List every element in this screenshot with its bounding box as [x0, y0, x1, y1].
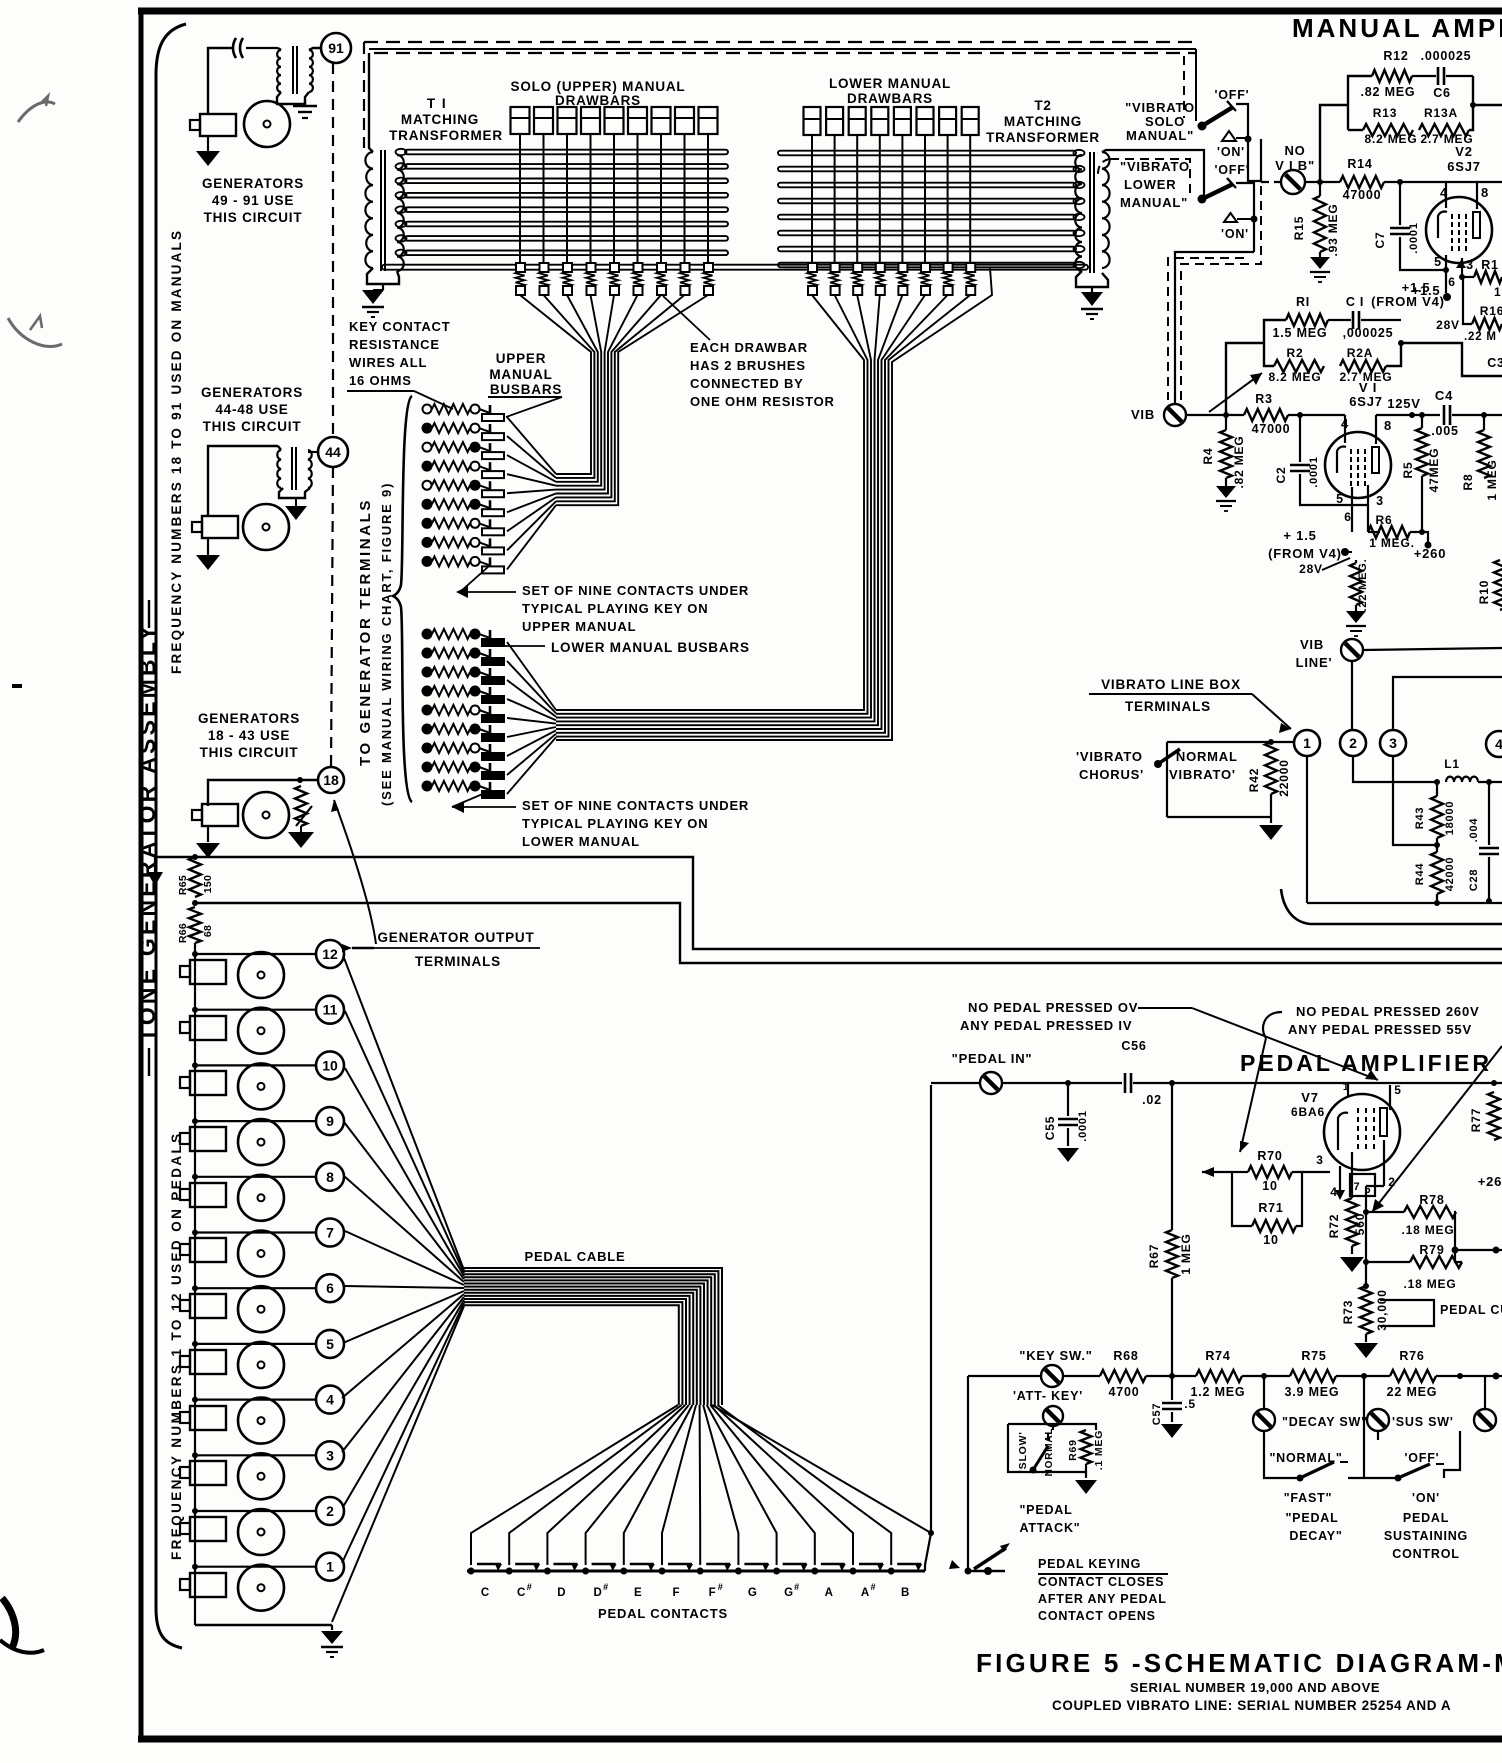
svg-text:B: B: [901, 1587, 909, 1599]
svg-text:FREQUENCY NUMBERS 1 TO 12 US: FREQUENCY NUMBERS 1 TO 12 USED ON PEDALS: [169, 1131, 184, 1560]
svg-text:3: 3: [1316, 1153, 1323, 1167]
wire pedal contact lead 9: [707, 1405, 777, 1565]
svg-text:1 M: 1 M: [1494, 285, 1502, 299]
svg-text:6: 6: [326, 1280, 334, 1296]
svg-text:5: 5: [1394, 1083, 1401, 1097]
drawbar lower 5 brushes: [898, 263, 907, 272]
drawbar upper 3 stem: [566, 134, 568, 267]
svg-text:.18 MEG: .18 MEG: [1404, 1277, 1457, 1291]
svg-text:V2: V2: [1455, 144, 1473, 159]
svg-text:R4: R4: [1201, 448, 1215, 465]
svg-text:"FAST": "FAST": [1284, 1491, 1333, 1505]
generator row 8 wire: [195, 1176, 317, 1178]
key contact resistor (upper busbar 1): [423, 405, 432, 414]
drawbar lower 3: [849, 107, 866, 135]
svg-text:L1: L1: [1444, 757, 1460, 771]
wire C4 node: [1376, 414, 1440, 416]
busbar stub (lower 3): [489, 668, 492, 682]
svg-text:(SEE MANUAL WIRING CHART, FIGU: (SEE MANUAL WIRING CHART, FIGURE 9): [379, 482, 394, 806]
resistor R12 parallel box: [1348, 76, 1372, 130]
wire R70 to pin3: [1302, 1171, 1330, 1173]
wire pedal cable lead 2: [343, 1300, 464, 1507]
svg-text:1.5 MEG: 1.5 MEG: [1273, 326, 1328, 340]
drawbar lower 8: [962, 107, 979, 135]
drawbar lower 7 stem: [947, 135, 949, 267]
busbar stub (upper 4): [489, 462, 492, 476]
resistor R13 R13A: [1348, 129, 1363, 131]
svg-text:PEDAL CONTACTS: PEDAL CONTACTS: [598, 1606, 728, 1621]
busbar stub (upper 6): [489, 500, 492, 514]
wire pedal cable lead 8: [344, 1176, 464, 1282]
capacitor C57: [1171, 1376, 1173, 1400]
svg-text:TYPICAL PLAYING KEY ON: TYPICAL PLAYING KEY ON: [522, 601, 708, 616]
transformer coil (gen 44-48): [277, 450, 281, 488]
svg-text:1.2 MEG: 1.2 MEG: [1191, 1385, 1246, 1399]
drawbar upper 8 stem: [684, 134, 686, 267]
resistor R7 .22MEG: [1355, 560, 1357, 563]
wire lower drawbar fan to bundle: [556, 295, 864, 710]
svg-text:G: G: [784, 1587, 793, 1599]
svg-text:"KEY SW.": "KEY SW.": [1019, 1348, 1092, 1363]
svg-text:RI: RI: [1296, 295, 1310, 309]
svg-text:LOWER MANUAL BUSBARS: LOWER MANUAL BUSBARS: [551, 640, 750, 655]
svg-text:AFTER ANY PEDAL: AFTER ANY PEDAL: [1038, 1592, 1167, 1606]
drawbar upper 8: [675, 107, 694, 134]
svg-text:PEDAL AMPLIFIER: PEDAL AMPLIFIER: [1240, 1050, 1492, 1076]
svg-text:8.2 MEG: 8.2 MEG: [1365, 132, 1418, 146]
svg-text:,000025: ,000025: [1343, 326, 1394, 340]
svg-text:A: A: [825, 1587, 833, 1599]
resistor R42: [1265, 742, 1277, 794]
svg-text:EACH DRAWBAR: EACH DRAWBAR: [690, 340, 808, 355]
wire vibrato bus down: [1253, 181, 1255, 252]
svg-text:D: D: [557, 1587, 565, 1599]
svg-text:'SUS SW': 'SUS SW': [1392, 1415, 1454, 1429]
drawbar upper 4: [581, 107, 600, 134]
leader pedal amplifier slash: [1372, 1046, 1502, 1212]
arrow ground (gen 18-43 resistor): [300, 826, 302, 832]
terminal circle 2: [316, 1497, 344, 1525]
leader GENERATOR OUTPUT TERMINALS: [352, 947, 374, 949]
capacitor C55: [1067, 1083, 1069, 1116]
svg-text:#: #: [527, 1582, 532, 1592]
svg-text:C7: C7: [1373, 232, 1387, 249]
svg-text:1 MEG: 1 MEG: [1179, 1233, 1193, 1274]
wire V1 cathode pins: [1351, 487, 1353, 532]
ground R7: [1355, 605, 1357, 611]
svg-text:CONTROL: CONTROL: [1392, 1547, 1459, 1561]
ground (generator bus): [331, 1625, 333, 1630]
wire generator output line A: [195, 857, 1502, 949]
drawbar upper 9 brushes: [704, 263, 713, 272]
svg-text:47MEG: 47MEG: [1427, 448, 1441, 493]
pedal contact F#: [697, 1568, 704, 1575]
key contact resistor (lower busbar 4): [423, 687, 432, 696]
svg-text:.18 MEG: .18 MEG: [1402, 1223, 1455, 1237]
svg-text:C I: C I: [1346, 295, 1364, 309]
wire R68 to R74: [1146, 1375, 1196, 1377]
svg-text:R67: R67: [1147, 1244, 1161, 1268]
svg-text:7: 7: [326, 1225, 334, 1241]
wire junction up to R12 box: [1320, 105, 1348, 182]
svg-text:NORMAL: NORMAL: [1044, 1428, 1055, 1477]
drawbar lower 4 brushes: [876, 263, 885, 272]
svg-text:R14: R14: [1347, 157, 1372, 171]
svg-text:6: 6: [1344, 510, 1351, 524]
svg-text:R70: R70: [1257, 1149, 1282, 1163]
svg-text:TRANSFORMER: TRANSFORMER: [389, 128, 503, 143]
terminal KEY SW: [1041, 1365, 1063, 1387]
busbar stub (lower 8): [489, 763, 492, 777]
drawbar upper 2 stem: [543, 134, 545, 267]
terminal circle 91: [321, 33, 351, 63]
resistor R65: [189, 857, 201, 897]
svg-text:3: 3: [1389, 735, 1397, 751]
wire pedal cable lead 12: [344, 958, 464, 1270]
drawbar upper 1 brushes: [516, 263, 525, 272]
drawbar upper 5 brushes: [610, 263, 619, 272]
leader arrow to 8.2MEG: [1209, 373, 1262, 412]
svg-text:4700: 4700: [1108, 1385, 1139, 1399]
wire V7 pin1 pin5: [1347, 1083, 1349, 1096]
svg-text:'VIBRATO: 'VIBRATO: [1076, 749, 1143, 764]
wire pedal cable lead 1: [342, 1303, 464, 1563]
pickup box (gen row 8): [190, 1183, 226, 1207]
svg-text:R44: R44: [1414, 863, 1426, 886]
svg-text:'ATT- KEY': 'ATT- KEY': [1013, 1389, 1083, 1403]
svg-text:6BA6: 6BA6: [1291, 1105, 1325, 1119]
wire generator bus bottom to ground: [195, 1624, 332, 1626]
svg-text:SUSTAINING: SUSTAINING: [1384, 1529, 1468, 1543]
svg-text:A: A: [861, 1587, 869, 1599]
svg-text:R15: R15: [1292, 216, 1306, 240]
pedal contact E: [620, 1568, 627, 1575]
wire R76 right: [1436, 1375, 1502, 1377]
generator row 11 wire: [195, 1009, 317, 1011]
svg-text:ANY PEDAL PRESSED IV: ANY PEDAL PRESSED IV: [960, 1018, 1132, 1033]
svg-text:5: 5: [326, 1336, 334, 1352]
tone wheel (gen row 9): [238, 1119, 284, 1165]
dashed enclosure top: [364, 41, 1200, 43]
svg-text:FREQUENCY NUMBERS 18 TO 91 US: FREQUENCY NUMBERS 18 TO 91 USED ON MANUA…: [169, 229, 184, 674]
terminal circle 7: [316, 1219, 344, 1247]
transformer ground (gen 44-48): [279, 488, 310, 498]
svg-text:F: F: [709, 1587, 716, 1599]
svg-text:THIS CIRCUIT: THIS CIRCUIT: [204, 210, 303, 225]
svg-text:.82 MEG: .82 MEG: [1232, 436, 1246, 489]
drawbar upper 6 stem: [637, 134, 639, 267]
capacitor C7: [1399, 182, 1401, 225]
drawbar lower 6: [917, 107, 934, 135]
terminal circle 8: [316, 1163, 344, 1191]
svg-text:LOWER MANUAL: LOWER MANUAL: [829, 76, 951, 91]
svg-text:R6: R6: [1376, 513, 1393, 527]
wire cable lead to B: [712, 1405, 931, 1533]
svg-text:CONTACT CLOSES: CONTACT CLOSES: [1038, 1575, 1164, 1589]
generator row 3 wire: [195, 1454, 317, 1456]
svg-text:SOLO (UPPER) MANUAL: SOLO (UPPER) MANUAL: [511, 79, 686, 94]
busbar stub (upper 1): [489, 405, 492, 419]
svg-text:V I: V I: [1359, 380, 1377, 395]
drawbar lower 1 brushes: [808, 263, 817, 272]
svg-text:4: 4: [1495, 736, 1502, 752]
generator row 9 wire: [195, 1120, 317, 1122]
key contact resistor (upper busbar 3): [423, 443, 432, 452]
svg-text:3.9 MEG: 3.9 MEG: [1285, 1385, 1340, 1399]
svg-text:LOWER MANUAL: LOWER MANUAL: [522, 834, 640, 849]
svg-text:22 MEG: 22 MEG: [1387, 1385, 1438, 1399]
svg-text:#: #: [603, 1582, 608, 1592]
wire pedal contact baseline: [467, 1570, 925, 1573]
resistor (gen 18-43): [295, 786, 307, 826]
svg-text:10: 10: [1263, 1233, 1279, 1247]
leader LOWER MANUAL BUSBARS: [504, 645, 545, 647]
busbar stub (lower 2): [489, 649, 492, 663]
svg-text:R8: R8: [1461, 474, 1475, 491]
svg-text:.0001: .0001: [1408, 222, 1420, 254]
pedal contact G: [735, 1568, 742, 1575]
wire R42 top: [1167, 741, 1294, 743]
generator row 2 wire: [195, 1510, 317, 1512]
wire generator bus vertical: [194, 943, 196, 1625]
svg-text:'SLOW': 'SLOW': [1017, 1431, 1029, 1472]
svg-text:22000: 22000: [1277, 759, 1291, 796]
svg-text:+26: +26: [1478, 1174, 1502, 1189]
pedal cutoff box: [1380, 1300, 1434, 1326]
svg-text:CONTACT OPENS: CONTACT OPENS: [1038, 1609, 1156, 1623]
terminal circle 1 (vibrato): [1294, 730, 1320, 756]
drawbar upper 9 stem: [707, 134, 709, 267]
pedal contact D: [544, 1568, 551, 1575]
svg-text:UPPER: UPPER: [496, 351, 547, 366]
svg-text:44: 44: [325, 444, 341, 460]
svg-text:"DECAY SW": "DECAY SW": [1282, 1415, 1368, 1429]
svg-text:SOLO: SOLO: [1145, 114, 1185, 129]
svg-text:6SJ7: 6SJ7: [1447, 159, 1481, 174]
margin pen mark lower: [2, 1598, 16, 1648]
resistor R66: [189, 907, 201, 943]
svg-text:GENERATORS: GENERATORS: [198, 711, 300, 726]
key contact resistor (upper busbar 2): [423, 424, 432, 433]
drawbar lower 3 stem: [856, 135, 858, 267]
drawbar upper 5 stem: [613, 134, 615, 267]
svg-text:R12: R12: [1383, 49, 1408, 63]
drawbar upper 1: [511, 107, 530, 134]
dashed pair to VIB terminal: [1168, 258, 1244, 400]
drawbar upper 8 brushes: [681, 263, 690, 272]
svg-text:MANUAL: MANUAL: [489, 367, 552, 382]
drawbar upper 4 stem: [590, 134, 592, 267]
svg-text:.02: .02: [1142, 1093, 1162, 1107]
wire pedal contact lead 11: [714, 1405, 853, 1565]
busbar stub (upper 2): [489, 424, 492, 438]
svg-text:+1.5: +1.5: [1402, 280, 1431, 295]
wire V2 cathode network: [1463, 277, 1472, 324]
svg-text:MATCHING: MATCHING: [401, 112, 479, 127]
terminal ATT-KEY: [1043, 1406, 1063, 1426]
svg-text:68: 68: [202, 925, 214, 937]
terminal NO VIB: [1261, 181, 1281, 183]
key contact resistor (upper busbar 8): [423, 538, 432, 547]
svg-text:CONNECTED BY: CONNECTED BY: [690, 376, 804, 391]
key contact resistor (lower busbar 5): [423, 706, 432, 715]
resistor R2 R2A: [1264, 343, 1274, 366]
svg-text:LINE': LINE': [1296, 655, 1333, 670]
svg-text:C55: C55: [1043, 1116, 1057, 1140]
terminal circle 5: [316, 1330, 344, 1358]
leader set of nine lower: [452, 793, 516, 807]
svg-text:.22 MEG.: .22 MEG.: [1357, 559, 1369, 612]
drawbar upper 4 brushes: [587, 263, 596, 272]
svg-text:'ON': 'ON': [1221, 227, 1249, 241]
svg-text:T2: T2: [1034, 98, 1051, 113]
busbar stub (lower 9): [489, 782, 492, 796]
svg-text:8: 8: [1481, 185, 1489, 200]
switch sus sw: [1364, 1477, 1398, 1479]
svg-text:R65: R65: [177, 875, 189, 895]
border top: [138, 8, 1502, 15]
svg-text:18000: 18000: [1444, 801, 1456, 836]
generator row 4 wire: [195, 1398, 317, 1400]
pickup box (gen row 10): [190, 1071, 226, 1095]
svg-text:2: 2: [326, 1503, 334, 1519]
generator row 7 wire: [195, 1231, 317, 1233]
resistor R69: [1081, 1430, 1092, 1464]
key contact resistor (lower busbar 3): [423, 668, 432, 677]
svg-text:COUPLED VIBRATO LINE: SERIAL: COUPLED VIBRATO LINE: SERIAL NUMBER 2525…: [1052, 1698, 1451, 1713]
key contact resistor (lower busbar 6): [423, 725, 432, 734]
svg-text:10: 10: [322, 1057, 338, 1073]
drawbar upper 3 brushes: [563, 263, 572, 272]
svg-text:RESISTANCE: RESISTANCE: [349, 337, 440, 352]
drawbar lower 4 stem: [879, 135, 881, 267]
wire vibrato bus down to VIB terminal: [1175, 252, 1254, 405]
margin pencil mark middle: [8, 318, 62, 346]
svg-text:SET OF NINE CONTACTS UNDER: SET OF NINE CONTACTS UNDER: [522, 583, 749, 598]
svg-text:C4: C4: [1435, 388, 1453, 403]
svg-text:NO PEDAL PRESSED 260V: NO PEDAL PRESSED 260V: [1296, 1004, 1479, 1019]
key contact resistor (lower busbar 9): [423, 782, 432, 791]
pedal contact G#: [773, 1568, 780, 1575]
svg-text:ONE OHM RESISTOR: ONE OHM RESISTOR: [690, 394, 835, 409]
svg-text:CHORUS': CHORUS': [1079, 767, 1144, 782]
wire R14 to V2: [1384, 181, 1502, 183]
svg-text:C6: C6: [1433, 86, 1451, 100]
svg-text:7: 7: [1354, 1181, 1361, 1193]
wire R74 to R75: [1242, 1375, 1290, 1377]
leader each drawbar: [663, 296, 710, 340]
svg-text:9: 9: [326, 1113, 334, 1129]
wire switch solo to box: [1236, 104, 1248, 139]
resistor R43: [1431, 796, 1443, 838]
svg-text:R76: R76: [1399, 1349, 1424, 1363]
svg-text:4: 4: [326, 1392, 334, 1408]
wire pedal contact lead 2: [509, 1405, 681, 1565]
ground arrow (gen 44-48): [207, 538, 209, 556]
svg-text:.004: .004: [1468, 818, 1480, 843]
pedal contact A#: [850, 1568, 857, 1575]
drawbar upper 7 stem: [660, 134, 662, 267]
wire pedal contact lead 1: [471, 1405, 678, 1565]
wire pedal contact lead 12: [718, 1405, 892, 1565]
wire upper drawbar fan to bundle: [520, 295, 591, 474]
svg-text:VIB: VIB: [1131, 407, 1155, 422]
wire key sw: [968, 1375, 1100, 1377]
svg-text:C2: C2: [1274, 467, 1288, 484]
drawbar lower 2 stem: [834, 135, 836, 267]
svg-text:PEDAL CABLE: PEDAL CABLE: [524, 1249, 625, 1264]
wire terminal 2 down to L1 line: [1353, 756, 1437, 782]
leader no pedal pressed: [1138, 1007, 1192, 1009]
svg-text:VIB: VIB: [1300, 637, 1324, 652]
svg-text:.0001: .0001: [1308, 456, 1320, 488]
busbar stub (lower 5): [489, 706, 492, 720]
key contact resistor (lower busbar 1): [423, 630, 432, 639]
terminal VIB: [1164, 404, 1186, 426]
svg-text:.000025: .000025: [1421, 49, 1472, 63]
svg-text:THIS CIRCUIT: THIS CIRCUIT: [200, 745, 299, 760]
leader vibrato line box: [1252, 694, 1291, 729]
svg-text:TERMINALS: TERMINALS: [1125, 699, 1211, 714]
drawbar upper 9: [699, 107, 718, 134]
resistor R8: [1478, 430, 1490, 478]
svg-text:R5: R5: [1401, 462, 1415, 479]
tone wheel (gen row 10): [238, 1063, 284, 1109]
svg-text:R69: R69: [1067, 1439, 1079, 1461]
pickup box (gen row 1): [190, 1573, 226, 1597]
svg-text:THIS CIRCUIT: THIS CIRCUIT: [203, 419, 302, 434]
svg-text:MATCHING: MATCHING: [1004, 114, 1082, 129]
svg-text:G: G: [748, 1587, 757, 1599]
svg-text:+260: +260: [1414, 546, 1446, 561]
tone wheel (gen row 2): [238, 1509, 284, 1555]
svg-text:.22 M: .22 M: [1464, 331, 1497, 343]
switch vibrato lower manual: [1198, 195, 1207, 204]
generator 44-48 circuit wire: [208, 446, 278, 516]
svg-text:R71: R71: [1258, 1201, 1283, 1215]
svg-text:R1: R1: [1481, 258, 1499, 272]
terminal circle 9: [316, 1107, 344, 1135]
margin pencil mark upper: [18, 102, 55, 122]
svg-text:"VIBRATO: "VIBRATO: [1125, 100, 1195, 115]
switch box: [1248, 139, 1261, 181]
tone wheel (gen row 4): [238, 1398, 284, 1444]
wire pedal in left down: [931, 1082, 980, 1084]
terminal circle 4 (vibrato): [1486, 731, 1502, 757]
svg-text:.0001: .0001: [1077, 1110, 1089, 1142]
generator 49-91 circuit wire: [208, 48, 232, 115]
resistor R72: [1346, 1198, 1358, 1246]
drawbar upper 7: [652, 107, 671, 134]
tone wheel (gen 49-91): [244, 101, 290, 147]
busbar stub (upper 7): [489, 519, 492, 533]
drawbar lower 5 stem: [901, 135, 903, 267]
svg-text:TO GENERATOR TERMINALS: TO GENERATOR TERMINALS: [357, 498, 374, 766]
busbar stub (lower 1): [489, 630, 492, 644]
svg-text:TERMINALS: TERMINALS: [415, 954, 501, 969]
pedal contact C#: [506, 1568, 513, 1575]
wire pedal cable lead 11: [345, 1011, 464, 1273]
svg-text:C3: C3: [1487, 356, 1502, 370]
drawbar lower 2 brushes: [831, 263, 840, 272]
T1 base + ground: [367, 268, 399, 284]
pickup box (gen row 9): [190, 1127, 226, 1151]
svg-text:DRAWBARS: DRAWBARS: [847, 91, 933, 106]
pickup box (gen row 6): [190, 1294, 226, 1318]
tone wheel (gen row 8): [238, 1175, 284, 1221]
svg-text:VIBRATO': VIBRATO': [1169, 767, 1236, 782]
capacitor C6: [1412, 75, 1436, 77]
